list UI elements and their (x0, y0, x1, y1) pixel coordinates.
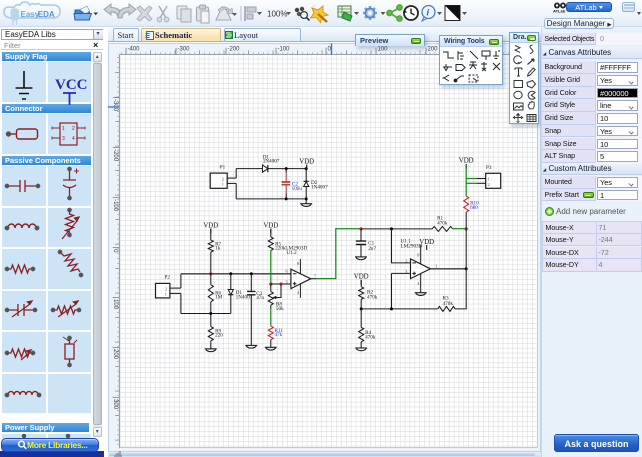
resistor horizontal tile (5, 265, 34, 273)
resistor R6 (210, 274, 212, 285)
svg-text:-200: -200 (228, 47, 241, 53)
svg-text:1: 1 (487, 177, 489, 182)
svg-text:50k: 50k (276, 306, 284, 312)
resistor R2 (360, 280, 362, 287)
ground (R4) (355, 348, 367, 351)
ATLab mini logo (553, 3, 566, 14)
svg-text:100: 100 (378, 47, 389, 53)
wire top rail (236, 167, 262, 169)
top toolbar (0, 0, 642, 27)
svg-text:4: 4 (297, 290, 300, 295)
ground (C3) (245, 345, 257, 348)
svg-text:470k: 470k (442, 301, 453, 307)
section header Power Supply (2, 423, 89, 432)
arc tool (514, 56, 522, 64)
hand tool (528, 101, 534, 108)
pencil tool (528, 68, 536, 76)
svg-text:220k: 220k (275, 246, 286, 252)
ground (C1) (355, 257, 367, 260)
sidebar scrollbar (93, 52, 103, 438)
wire VDD to R5 (270, 228, 272, 236)
svg-text:2n7: 2n7 (368, 246, 376, 252)
info bubble (422, 6, 442, 22)
netflag gnd tool (443, 64, 452, 71)
image tool (514, 103, 524, 110)
svg-text:1: 1 (435, 263, 437, 268)
resistor R10 (highlighted) (463, 196, 468, 212)
wire P1 pin2 up (235, 168, 237, 177)
svg-text:-300: -300 (178, 47, 191, 53)
node junction R2/R4 (359, 307, 362, 310)
resistor R7 (208, 240, 213, 252)
white grid area (119, 54, 538, 448)
Ask a question button (554, 434, 639, 453)
wire R5 to divider node (green net) (270, 250, 272, 284)
variable resistor vertical tile (62, 208, 79, 239)
svg-text:2: 2 (487, 182, 489, 187)
svg-text:VDD: VDD (354, 273, 369, 280)
ellipse tool (514, 91, 522, 98)
svg-text:VDD: VDD (459, 158, 474, 165)
svg-text:VDD: VDD (419, 239, 434, 246)
resistor R3 (437, 306, 454, 311)
right panel (541, 27, 642, 457)
wire VDD down (green net) (465, 168, 467, 196)
copy pages (177, 6, 191, 22)
battery tiles partial row (22, 434, 69, 443)
svg-text:200: 200 (112, 349, 118, 360)
tab Schematic (active) (141, 28, 221, 42)
node junction (red) R7/main (209, 272, 212, 275)
wire tool (443, 52, 454, 58)
ruler cursor marker X (331, 44, 333, 55)
Custom Attributes header (542, 163, 642, 175)
BOM table icon (338, 6, 359, 21)
align icon (245, 6, 262, 21)
trimmer capacitor tile (5, 301, 36, 317)
Canvas Attributes header (542, 47, 642, 59)
svg-text:VDD: VDD (299, 158, 314, 165)
group tool (469, 75, 478, 82)
wire inverting input (271, 283, 291, 285)
tab Layout (224, 28, 301, 42)
svg-text:8: 8 (417, 252, 420, 257)
Wiring Tools palette (439, 35, 503, 85)
ground (P1 circuit) (300, 204, 312, 207)
node junction D1b top (229, 272, 232, 275)
P2 pin stubs (170, 287, 181, 289)
netport tool (456, 65, 465, 71)
spline tool (530, 45, 533, 54)
netlabel tool (482, 51, 490, 60)
svg-text:470k: 470k (437, 221, 448, 227)
capacitor tile (5, 180, 39, 192)
resistor R8 (rheostat) (270, 284, 272, 292)
wire VDD to R7 (210, 228, 212, 239)
canvas panel (108, 43, 542, 453)
probe tool (443, 75, 450, 81)
svg-text:VDD: VDD (263, 222, 278, 229)
wire VDD corner to D2 (305, 168, 307, 181)
4-way pin tool (469, 62, 477, 69)
svg-text:680: 680 (470, 205, 478, 211)
svg-text:47k: 47k (274, 332, 282, 338)
svg-text:2: 2 (164, 286, 166, 291)
wire to P3 pin2 (green) (466, 182, 476, 184)
plug connector tile (7, 129, 38, 139)
pin tool (456, 76, 464, 80)
open folder icon (74, 6, 98, 20)
U1.2 power pins (299, 259, 301, 274)
svg-text:1: 1 (164, 292, 166, 297)
svg-text:1N4007: 1N4007 (262, 159, 279, 165)
canvas bottom scrollbar (108, 452, 542, 457)
paste clipboard (197, 5, 210, 23)
wire wiper of R8 (276, 284, 281, 297)
Preview palette (minimized) (355, 34, 425, 46)
resistor R4 (360, 309, 362, 327)
tab bar (108, 28, 542, 42)
resistor R9 (210, 313, 212, 326)
wire bottom rail (236, 198, 306, 200)
resistor R1 (432, 226, 452, 231)
node junction non-inv/bottom (390, 307, 393, 310)
tab Start (113, 28, 139, 42)
wire P2 pin1 down to bottom rail (180, 293, 182, 313)
polarized capacitor tile (63, 167, 79, 199)
libs dropdown (1, 29, 103, 40)
P1 pin stubs (227, 177, 236, 179)
node junction VDD/D2 (304, 167, 307, 170)
filter box (1, 41, 103, 51)
Design Manager button (544, 18, 614, 30)
wire R10 to rail (465, 212, 467, 229)
Selected Objects row (542, 33, 642, 46)
op-amp U1.1 (410, 259, 430, 279)
svg-text:1M: 1M (215, 295, 223, 301)
trimmer resistor tile (51, 301, 80, 317)
EasyEDA logo (4, 2, 60, 25)
More Libraries button (0, 451, 104, 457)
move tool (513, 114, 522, 123)
wire D2 to ground (305, 186, 307, 203)
resistor R11 (highlighted) (268, 326, 273, 340)
svg-text:200: 200 (428, 47, 439, 53)
svg-text:1N4007: 1N4007 (311, 184, 328, 190)
capacitor C3 (250, 274, 252, 292)
redo arrow (118, 4, 136, 18)
node junction (red) wiper (279, 282, 282, 285)
delete X (137, 6, 152, 21)
svg-text:47n: 47n (256, 295, 264, 301)
wire D1 to corner (268, 167, 306, 169)
op-amp U1.2 (291, 269, 311, 288)
design rule check icon (295, 7, 310, 21)
svg-text:-100: -100 (112, 199, 118, 212)
table tool (527, 115, 536, 122)
wire U1.2 output (green net) (311, 278, 317, 280)
capacitor C2 (285, 168, 287, 172)
connector P3 (485, 173, 500, 188)
rotate tool (216, 7, 237, 20)
window menu icon (622, 2, 635, 12)
VCC symbol tile (55, 77, 88, 105)
svg-text:100: 100 (112, 299, 118, 310)
settings gear (363, 6, 386, 20)
ATLab button (566, 2, 612, 13)
polygon tool (527, 81, 536, 89)
svg-text:0: 0 (112, 249, 118, 253)
svg-text:300: 300 (112, 399, 118, 410)
node junction feedback (390, 227, 393, 230)
diode D2 (303, 180, 308, 182)
diode D1 (262, 165, 267, 172)
node junction (red) right rail (464, 227, 467, 230)
wire inverting branch U1.1 (391, 229, 410, 263)
pie tool (528, 91, 535, 99)
connector P1 (210, 173, 227, 188)
ruler cursor marker Y (108, 106, 119, 108)
node junction output/right rail (464, 267, 467, 270)
section header Passive Components (2, 156, 91, 165)
svg-text:6: 6 (285, 269, 288, 274)
connector P2 (155, 283, 169, 297)
wire bottom rail to R3 (361, 308, 437, 310)
node junction C3 top (250, 272, 253, 275)
svg-text:-100: -100 (278, 47, 291, 53)
magic wand (311, 5, 329, 23)
inductor tile (5, 224, 38, 230)
svg-text:P2: P2 (164, 274, 170, 280)
mouse position table (542, 221, 642, 234)
wire U1.1 output (430, 268, 466, 270)
attribute rows (542, 61, 642, 74)
P3 pin stubs (476, 177, 485, 179)
history clock (403, 6, 418, 20)
diode D1 (clamp) (230, 274, 232, 290)
undo arrow (104, 4, 122, 18)
potentiometer tile (5, 349, 34, 360)
rect tool (514, 81, 523, 88)
add new parameter (545, 207, 554, 216)
wire main horizontal to op-amp (181, 273, 291, 275)
arrow tool (528, 59, 535, 65)
svg-text:1: 1 (221, 182, 223, 187)
ground symbol tile (16, 71, 33, 99)
2-way pin tool (481, 62, 487, 71)
theme box (445, 6, 467, 21)
rectangle resistor vertical tile (63, 336, 77, 366)
svg-text:470k: 470k (367, 294, 378, 300)
wire R8 to R11 (green net) (270, 309, 272, 326)
inductor coil tile (5, 391, 40, 396)
svg-text:-400: -400 (128, 47, 141, 53)
wire P1 pin1 down (235, 183, 237, 198)
svg-text:7: 7 (314, 273, 317, 278)
text tool (515, 68, 522, 76)
bus tool (458, 51, 464, 60)
section header Supply Flag (2, 52, 91, 61)
svg-text:2: 2 (221, 176, 223, 181)
wire P2 pin2 up to main (180, 274, 182, 288)
node junction bottom of C2 (284, 197, 287, 200)
4-pin connector tile (52, 123, 85, 145)
left sidebar (0, 27, 104, 457)
node junction R6 bottom (209, 312, 212, 315)
wire R3 to right rail corner (455, 229, 466, 309)
wire non-inverting branch U1.1 (391, 272, 410, 274)
node junction top of C2 (284, 167, 287, 170)
blue line under tabs (108, 41, 542, 42)
section header Connector (2, 104, 91, 113)
ground (R9) (205, 349, 217, 352)
wire bottom rail (P2) (181, 312, 231, 314)
node junction (red) C1 (359, 227, 362, 230)
svg-text:VDD: VDD (203, 222, 218, 229)
wire to P3 pin1 (green) (466, 177, 476, 179)
freehand tool (515, 46, 520, 53)
no-connect tool (493, 63, 500, 70)
share icon (387, 5, 402, 21)
node junction (red) divider (269, 282, 272, 285)
resistor R5 (268, 237, 273, 250)
resistor diagonal tile (58, 250, 82, 276)
ground (R11) (265, 347, 277, 350)
scissors (157, 6, 169, 22)
wire R1 to right rail (green) (452, 228, 465, 230)
svg-text:-200: -200 (112, 149, 118, 162)
svg-text:100u: 100u (291, 186, 302, 192)
svg-text:P1: P1 (219, 165, 225, 171)
capacitor C1 (360, 229, 362, 241)
ground (U1.1) (414, 293, 426, 296)
svg-text:220: 220 (215, 333, 223, 339)
svg-text:8: 8 (297, 261, 300, 266)
svg-text:470k: 470k (365, 334, 376, 340)
svg-text:P3: P3 (486, 165, 492, 171)
svg-text:1k: 1k (215, 246, 221, 252)
wire R7 to node (210, 252, 212, 274)
U1.1 power pins (419, 245, 421, 264)
svg-text:U1.2: U1.2 (286, 250, 297, 256)
svg-text:2: 2 (405, 258, 407, 263)
svg-text:4: 4 (417, 281, 420, 286)
netflag bar tool (493, 51, 500, 59)
Drawing Tools palette (509, 32, 539, 124)
wire top rail to R1 (361, 228, 432, 230)
svg-text:-300: -300 (112, 99, 118, 112)
line tool (470, 51, 478, 59)
node junction bottom rail (304, 197, 307, 200)
